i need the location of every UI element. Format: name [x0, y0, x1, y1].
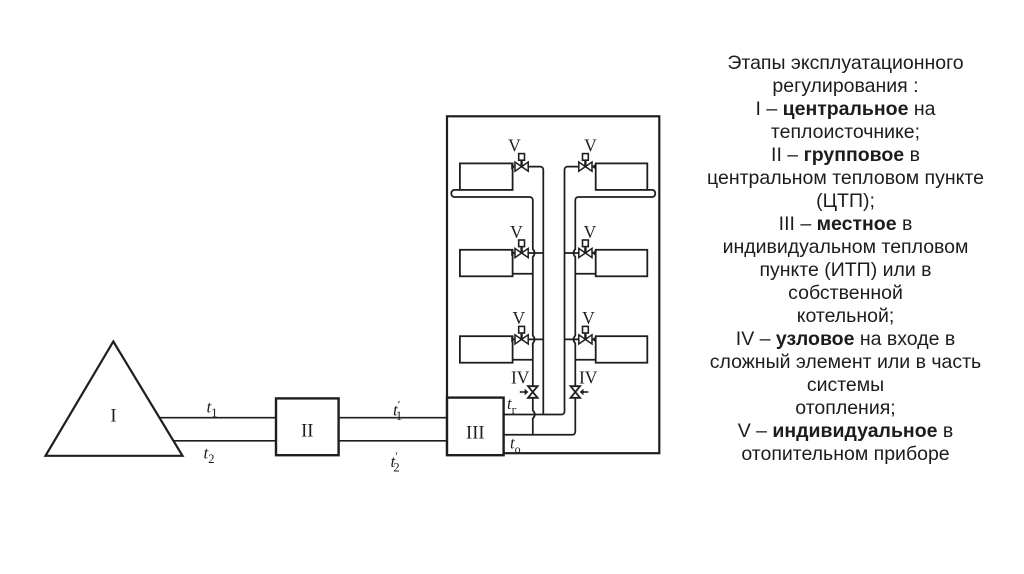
svg-text:IV: IV	[511, 368, 530, 388]
svg-text:t′1: t′1	[393, 398, 402, 424]
svg-text:V: V	[584, 222, 597, 242]
svg-text:V: V	[508, 135, 521, 155]
svg-text:II: II	[301, 422, 313, 442]
svg-text:III: III	[466, 424, 484, 444]
svg-text:V: V	[584, 135, 597, 155]
svg-text:V: V	[510, 222, 523, 242]
svg-text:t2: t2	[204, 444, 215, 467]
svg-text:V: V	[582, 308, 595, 328]
svg-text:t1: t1	[207, 398, 218, 421]
svg-text:V: V	[512, 308, 525, 328]
svg-text:IV: IV	[579, 368, 598, 388]
svg-text:I: I	[110, 407, 116, 427]
svg-text:t′2: t′2	[391, 449, 400, 475]
